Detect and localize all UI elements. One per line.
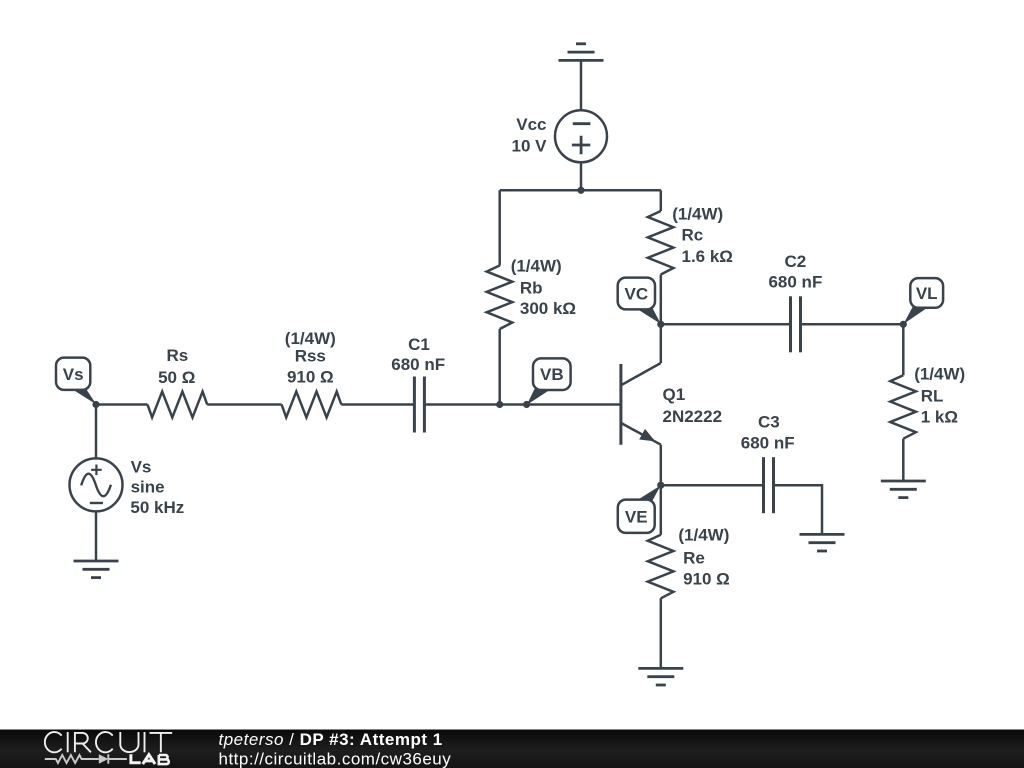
svg-text:680 nF: 680 nF — [768, 272, 822, 291]
junction: node VC — [657, 321, 664, 328]
junction: node VB — [523, 401, 530, 408]
source Vcc 10V — [555, 110, 607, 162]
CircuitLab logo: CIRCUIT — [45, 732, 172, 752]
svg-text:RL: RL — [921, 387, 944, 406]
wire: VC node to C2 — [661, 323, 791, 326]
wire: C1 to Q1 base — [424, 403, 619, 406]
svg-text:910 Ω: 910 Ω — [287, 368, 334, 387]
wire: source to ground — [95, 511, 98, 561]
svg-text:VC: VC — [625, 285, 649, 304]
svg-text:VL: VL — [916, 284, 938, 303]
wire: C3 to ground corner — [774, 485, 823, 534]
svg-text:10 V: 10 V — [512, 137, 548, 156]
svg-text:910 Ω: 910 Ω — [683, 570, 730, 589]
source Vs sine — [70, 458, 123, 511]
resistor Rss — [282, 392, 342, 418]
svg-text:1.6 kΩ: 1.6 kΩ — [682, 247, 733, 266]
svg-text:Q1: Q1 — [663, 385, 686, 404]
node flag VC — [636, 308, 661, 324]
wire: RL to ground — [902, 439, 905, 481]
CircuitLab logo: LAB — [131, 754, 155, 764]
svg-text:C3: C3 — [758, 413, 780, 432]
ground above Vcc (flipped) — [559, 44, 604, 61]
svg-text:C2: C2 — [785, 252, 807, 271]
node flag VB — [527, 389, 552, 405]
junction: node VE — [657, 482, 664, 489]
svg-text:Rc: Rc — [682, 226, 704, 245]
resistor RL — [890, 375, 916, 439]
svg-text:(1/4W): (1/4W) — [285, 329, 336, 348]
svg-text:Vcc: Vcc — [516, 115, 546, 134]
svg-text:C1: C1 — [408, 335, 430, 354]
wire: Vcc source to rail — [580, 162, 583, 190]
svg-text:VB: VB — [540, 365, 564, 384]
capacitor C3 — [762, 457, 765, 513]
svg-text:680 nF: 680 nF — [741, 434, 795, 453]
svg-text:(1/4W): (1/4W) — [511, 257, 562, 276]
resistor Rc — [648, 211, 674, 275]
svg-text:Vs: Vs — [131, 457, 152, 476]
CircuitLab logo: resistor-diode line — [45, 754, 127, 763]
junction: node Vs — [92, 401, 99, 408]
ground below RL — [881, 481, 926, 498]
svg-text:tpeterso / DP #3: Attempt 1: tpeterso / DP #3: Attempt 1 — [219, 730, 443, 749]
svg-text:(1/4W): (1/4W) — [672, 205, 723, 224]
svg-text:Rss: Rss — [295, 346, 326, 365]
wire: VE node to C3 — [661, 484, 764, 487]
wire: Vcc up to ground — [580, 60, 583, 110]
transistor Q1 2N2222 — [621, 363, 661, 385]
svg-text:(1/4W): (1/4W) — [914, 364, 965, 383]
resistor Rs — [148, 392, 208, 418]
wire: Rb up to top rail — [498, 190, 501, 265]
wire: emitter down to VE node — [660, 445, 663, 486]
svg-text:Rb: Rb — [520, 279, 543, 298]
node flag VE — [636, 485, 661, 500]
ground below Re — [638, 668, 683, 685]
node flag VL — [904, 307, 929, 324]
wire: Rc down to VC node — [660, 275, 663, 325]
svg-text:1 kΩ: 1 kΩ — [921, 407, 958, 426]
svg-text:Vs: Vs — [63, 365, 84, 384]
junction: node VL — [900, 321, 907, 328]
junction: Rb to input net — [496, 401, 503, 408]
resistor Rb — [487, 266, 513, 330]
wire: collector wire from VC node — [660, 324, 663, 363]
wire: VE node down to Re — [660, 485, 663, 535]
svg-text:http://circuitlab.com/cw36euy: http://circuitlab.com/cw36euy — [219, 750, 452, 768]
svg-text:Rs: Rs — [167, 346, 189, 365]
wire: VL node down to RL — [902, 324, 905, 375]
svg-text:300 kΩ: 300 kΩ — [520, 299, 576, 318]
wire: input net Vs node to Rs — [96, 403, 148, 406]
wire: C2 to VL node — [801, 323, 904, 326]
wire: Re to ground — [660, 598, 663, 668]
junction: Vcc to supply rail — [577, 187, 584, 194]
capacitor C2 — [789, 296, 792, 352]
svg-text:50 kHz: 50 kHz — [130, 498, 184, 517]
svg-text:50 Ω: 50 Ω — [158, 368, 195, 387]
svg-text:VE: VE — [625, 507, 648, 526]
wire: Rss to C1 — [341, 403, 414, 406]
wire: Vs node down to source — [95, 405, 98, 459]
svg-text:680 nF: 680 nF — [391, 355, 445, 374]
resistor Re — [648, 535, 674, 599]
svg-text:sine: sine — [131, 478, 165, 497]
svg-text:(1/4W): (1/4W) — [678, 526, 729, 545]
capacitor C1 — [413, 377, 416, 433]
wire: Rs to Rss — [207, 403, 281, 406]
svg-text:2N2222: 2N2222 — [663, 407, 723, 426]
wire: VB net up to Rb — [498, 329, 501, 405]
ground below C3 — [800, 534, 845, 551]
svg-text:Re: Re — [683, 548, 705, 567]
wire: top rail — [500, 189, 661, 192]
ground below Vs — [74, 561, 119, 578]
wire: rail down to Rc — [660, 190, 663, 211]
node flag Vs — [72, 389, 97, 405]
